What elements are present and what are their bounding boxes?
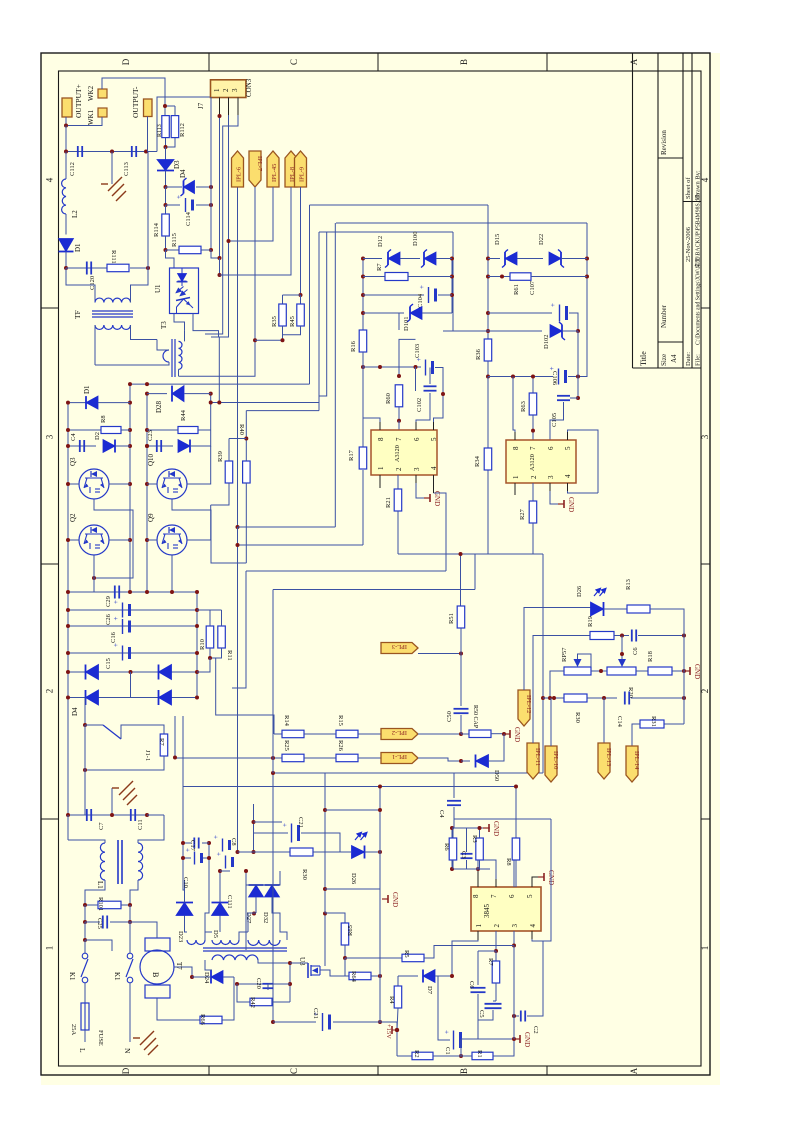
resistor R40 — [243, 461, 251, 483]
svg-text:5: 5 — [430, 437, 438, 441]
svg-text:8: 8 — [512, 446, 520, 450]
svg-text:+: + — [112, 600, 120, 604]
svg-text:T3: T3 — [160, 321, 168, 329]
resistor R19 — [590, 632, 614, 640]
wire U1 pins top — [166, 250, 175, 268]
svg-text:D2: D2 — [94, 432, 101, 440]
svg-text:R14: R14 — [283, 715, 290, 727]
flag IPL-2 — [381, 729, 418, 740]
bus B corner — [336, 222, 587, 224]
svg-text:L2: L2 — [71, 210, 79, 218]
svg-text:R10: R10 — [199, 639, 206, 650]
svg-text:R44: R44 — [180, 409, 187, 421]
wire U1 bottom left — [174, 314, 185, 331]
svg-text:D: D — [121, 1067, 131, 1074]
svg-text:D1: D1 — [83, 385, 91, 394]
bridge diode D3a — [86, 665, 99, 680]
svg-text:C29: C29 — [105, 596, 112, 607]
resistor R11 — [218, 626, 226, 648]
wire D27 bottom — [255, 897, 257, 913]
wire aux row — [245, 871, 247, 950]
svg-text:R8: R8 — [100, 415, 107, 423]
bus C corner — [319, 231, 453, 233]
svg-text:R21: R21 — [385, 497, 392, 508]
resistor R65 — [325, 913, 345, 923]
sheet border — [41, 53, 710, 1075]
wire TF right top — [131, 268, 149, 303]
svg-text:C20: C20 — [255, 978, 262, 989]
pin5 stub — [433, 422, 435, 430]
svg-text:5: 5 — [564, 446, 572, 450]
capacitor C104 polarized — [428, 287, 430, 303]
optocoupler U1 — [170, 268, 199, 314]
svg-text:C50: C50 — [446, 711, 453, 722]
row D101 — [363, 312, 404, 314]
flag IPL-7 — [249, 151, 261, 187]
svg-text:B: B — [459, 1068, 469, 1074]
row 724 R31 — [664, 723, 684, 725]
wire R10/R11 bottoms — [210, 648, 222, 658]
transformer TF core — [92, 310, 133, 312]
svg-text:+: + — [212, 835, 220, 839]
bus D rail — [319, 232, 327, 396]
pin3 gnd IC2 — [549, 483, 551, 491]
resistor R44 cell2 — [147, 429, 178, 431]
flag IPL-9 — [295, 151, 307, 187]
svg-text:J7: J7 — [197, 102, 205, 109]
svg-text:Number: Number — [660, 304, 668, 328]
svg-text:C11: C11 — [137, 819, 144, 830]
bridge diode row bottom — [68, 697, 197, 699]
svg-text:A: A — [629, 58, 639, 65]
svg-text:D1: D1 — [74, 243, 82, 252]
row C16 — [68, 625, 197, 627]
diode D32 — [265, 885, 280, 897]
pin5 stub IC2 — [567, 432, 569, 440]
svg-text:IPL-10: IPL-10 — [552, 751, 559, 769]
transformer T3 secondary — [179, 341, 183, 369]
CON3 pin1 wire — [219, 98, 221, 117]
pin6 stub — [415, 422, 417, 430]
resistor R115 — [166, 249, 180, 251]
svg-text:IPL-3: IPL-3 — [392, 643, 407, 650]
capacitor C23 cell2 — [156, 440, 158, 452]
row D12 D100 — [363, 258, 382, 260]
svg-text:C14: C14 — [616, 716, 623, 728]
wire D7 node down C1 — [438, 976, 450, 1040]
svg-text:R16: R16 — [350, 340, 357, 352]
diode D15 zener — [505, 252, 517, 265]
svg-text:+: + — [549, 303, 557, 307]
svg-text:Revision: Revision — [660, 130, 668, 155]
node IPL-9 R45 top — [299, 293, 303, 297]
wire C14 tap down IPL-13 — [603, 698, 605, 743]
svg-text:R66: R66 — [199, 1014, 206, 1026]
wire OUTPUT+ rail down — [65, 126, 67, 152]
svg-text:R30: R30 — [301, 869, 308, 880]
svg-text:GND: GND — [433, 491, 441, 506]
svg-text:R50 CAP: R50 CAP — [472, 705, 478, 729]
resistor R25 — [282, 754, 304, 762]
wire IPL-6 rail upper — [237, 187, 239, 527]
svg-text:+: + — [548, 367, 556, 371]
svg-text:R8: R8 — [505, 858, 512, 866]
row 331 — [443, 330, 488, 332]
wire R39 bottom to Q9 gate — [211, 483, 229, 505]
rail 488 lower — [487, 469, 489, 554]
svg-text:GND: GND — [567, 497, 575, 512]
svg-text:C23: C23 — [147, 430, 154, 441]
row 527 bus — [238, 526, 336, 528]
svg-text:U3: U3 — [298, 957, 306, 966]
flag IPL-1 — [381, 753, 418, 764]
svg-text:IPL-13: IPL-13 — [605, 748, 612, 766]
svg-text:3: 3 — [547, 475, 555, 479]
IC A3120 #1 — [371, 430, 437, 475]
svg-text:R1: R1 — [476, 1050, 483, 1058]
wire RP57 left — [550, 671, 564, 698]
svg-text:R3: R3 — [471, 835, 478, 843]
svg-text:25-Nov-2006: 25-Nov-2006 — [685, 226, 692, 262]
svg-text:7: 7 — [529, 446, 537, 450]
capacitor C114 — [185, 198, 187, 212]
wire R113/R112 bottoms — [165, 138, 167, 147]
node IPL-7 R35 row — [253, 338, 257, 342]
bus A corner — [310, 204, 489, 206]
wire R60 bottom to pin7 — [398, 421, 400, 430]
svg-text:C6: C6 — [632, 647, 639, 655]
earth ground bottom — [133, 1031, 158, 1055]
svg-text:R112: R112 — [179, 123, 186, 137]
row C107 — [488, 312, 552, 314]
row R61 — [488, 276, 510, 278]
wire K1 row — [84, 922, 86, 940]
wire Q2 emitter down — [93, 555, 95, 592]
rail 488 top — [487, 205, 489, 339]
capacitor C103 polarized — [425, 360, 427, 376]
svg-text:3: 3 — [45, 434, 55, 439]
resistor R17 — [359, 447, 367, 469]
row 545 bus — [238, 544, 364, 546]
capacitor C5 — [485, 1003, 502, 1005]
row R7x — [363, 276, 385, 278]
svg-text:C1: C1 — [444, 1047, 451, 1055]
rail 363 mid — [362, 470, 364, 545]
wire T3 sec bottom to IPL7 row — [179, 340, 256, 376]
svg-text:D4: D4 — [179, 169, 187, 178]
svg-text:+: + — [112, 617, 120, 621]
flag IPL-8 — [285, 151, 297, 187]
svg-text:R42: R42 — [249, 997, 256, 1008]
resistor R50 — [461, 733, 469, 735]
capacitor C6 — [631, 630, 633, 642]
svg-text:R6: R6 — [443, 843, 450, 851]
resistor R4 — [397, 976, 399, 986]
svg-text:C106: C106 — [551, 371, 558, 386]
terminal WK2 — [98, 89, 107, 98]
capacitor C4 cell1 — [79, 440, 81, 452]
diode D28 — [147, 393, 167, 395]
rail 363 to R17 — [362, 367, 364, 447]
svg-text:D7: D7 — [426, 986, 433, 995]
capacitor C2 — [514, 1015, 519, 1017]
svg-text:R111: R111 — [110, 250, 117, 264]
svg-text:B: B — [151, 972, 160, 977]
resistor R8 cell1 — [68, 429, 101, 431]
capacitor C6b — [477, 951, 479, 985]
svg-text:R26: R26 — [337, 740, 344, 752]
resistor R13 — [627, 605, 650, 613]
svg-text:R18: R18 — [647, 651, 654, 662]
wire IPL-10 riser — [550, 698, 552, 746]
earth ground at cap row — [111, 152, 113, 185]
inductor L1 left winding — [67, 815, 69, 840]
bridge diode D5a — [159, 665, 172, 680]
svg-text:R30: R30 — [574, 712, 581, 723]
svg-text:A4: A4 — [670, 354, 678, 363]
svg-text:3: 3 — [413, 467, 421, 471]
power +15V — [333, 1022, 397, 1030]
wire U1 bottom right to T3 — [193, 314, 219, 338]
rail right HV — [196, 592, 198, 698]
capacitor C4b — [447, 800, 461, 802]
svg-text:D24: D24 — [203, 972, 210, 984]
wire D27/D32 tops — [246, 871, 256, 885]
svg-text:C: C — [289, 1068, 299, 1074]
wire IPL-8 tail — [220, 187, 292, 275]
row 889 — [325, 888, 380, 890]
svg-text:OUTPUT+: OUTPUT+ — [74, 84, 83, 118]
node D1-C120 row — [64, 266, 68, 270]
rail 254 low — [253, 804, 255, 852]
transformer T3 core — [171, 339, 173, 377]
inductor L2 — [65, 152, 67, 180]
row R6 C3 R3 top — [452, 868, 490, 870]
rail 290 — [289, 963, 291, 1002]
row 376 C106 — [488, 376, 553, 378]
bus A row left — [130, 383, 310, 385]
svg-text:GND: GND — [513, 727, 521, 742]
svg-text:R7: R7 — [376, 263, 383, 271]
inductor L1 core — [117, 840, 119, 884]
row 554 — [398, 553, 543, 555]
wire pin1 tap from R113 node — [164, 106, 166, 116]
svg-text:Q10: Q10 — [147, 453, 155, 466]
rail mid cell2 — [210, 394, 212, 430]
svg-text:C8: C8 — [230, 838, 237, 846]
wire OUTPUT- down to cap row — [147, 117, 149, 152]
svg-text:R13: R13 — [625, 579, 632, 590]
rail 273 upper — [272, 590, 274, 759]
capacitor C113 — [131, 146, 133, 157]
svg-text:IPL-1: IPL-1 — [392, 753, 407, 760]
node CON3 pin1 — [218, 114, 222, 118]
wire R40 bottom rail — [245, 483, 247, 563]
wire motor top — [130, 922, 157, 938]
rail D4-C114 right — [210, 187, 212, 250]
wire R39 top — [229, 438, 246, 440]
svg-text:2: 2 — [395, 467, 403, 471]
svg-text:+: + — [112, 643, 120, 647]
row 698 R30 C14 — [543, 697, 564, 699]
row 773 bus — [273, 772, 543, 774]
flag IPL-13 — [598, 743, 610, 779]
capacitor C29 — [114, 586, 116, 599]
CON3 pin2 wire — [228, 98, 230, 116]
capacitor C50 — [460, 654, 462, 707]
svg-text:R45: R45 — [289, 316, 296, 327]
wire C6 to R20 arrow — [621, 636, 623, 660]
potentiometer RP57 — [564, 667, 591, 675]
row 828 — [452, 827, 490, 829]
svg-text:GND: GND — [523, 1032, 531, 1047]
rail aux right — [208, 843, 210, 880]
svg-text:5: 5 — [526, 894, 534, 898]
wire R35/R45 bottoms row — [282, 326, 284, 340]
resistor R6 — [452, 828, 454, 838]
svg-text:WK2: WK2 — [87, 85, 95, 101]
svg-text:CON3: CON3 — [245, 78, 253, 97]
svg-text:C7: C7 — [98, 822, 105, 830]
svg-text:4: 4 — [45, 177, 55, 182]
svg-text:4: 4 — [430, 466, 438, 470]
capacitor C25 — [84, 905, 86, 922]
wire py97 OUTPUT- net to CON3 — [157, 97, 211, 152]
resistor R16 — [359, 330, 367, 352]
svg-text:R101: R101 — [97, 897, 104, 911]
svg-text:6: 6 — [413, 437, 421, 441]
svg-text:C25: C25 — [96, 918, 103, 929]
terminal OUTPUT- — [144, 99, 153, 117]
svg-text:R60: R60 — [385, 393, 392, 404]
svg-text:L: L — [78, 1048, 87, 1053]
svg-text:R51: R51 — [448, 613, 455, 624]
svg-text:R63: R63 — [520, 401, 527, 412]
svg-text:J1-1: J1-1 — [144, 750, 151, 761]
wire to D3 — [165, 147, 167, 160]
svg-text:1: 1 — [475, 924, 483, 928]
svg-text:C111: C111 — [226, 895, 233, 909]
svg-text:+: + — [443, 1030, 451, 1034]
wire OUTPUT+ to node — [65, 117, 67, 126]
wire aux rail link — [205, 880, 209, 932]
inductor L1 right winding — [138, 843, 143, 880]
svg-text:K1: K1 — [113, 972, 121, 981]
svg-text:C:\Documents and Settings\XW\桌: C:\Documents and Settings\XW\桌面\BACKUP\P… — [694, 193, 702, 345]
row 571 bus — [246, 570, 446, 572]
wire OUT- rail down to R111 node — [147, 152, 149, 269]
svg-text:D26: D26 — [576, 585, 583, 597]
title block — [632, 53, 634, 368]
rail 380 upper — [379, 787, 381, 890]
resistor R101 — [98, 901, 121, 909]
svg-text:6: 6 — [508, 894, 516, 898]
svg-text:R7: R7 — [487, 958, 494, 966]
row 819 to left — [454, 818, 551, 820]
pin8 stub — [379, 422, 381, 430]
resistor R111 — [107, 264, 129, 272]
node R115 row — [164, 248, 168, 252]
svg-text:C114: C114 — [185, 211, 192, 226]
svg-text:A3120: A3120 — [529, 454, 536, 471]
capacitor C20 — [237, 983, 268, 985]
svg-text:8: 8 — [472, 894, 480, 898]
wire IPL-3 tip — [418, 653, 461, 655]
svg-text:3: 3 — [700, 434, 710, 439]
flag IPL-10 — [545, 746, 557, 782]
capacitor C1 polarized — [453, 1031, 455, 1050]
pin1 wire — [477, 931, 479, 940]
svg-text:Date:: Date: — [685, 352, 692, 366]
capacitor C24 polarized — [291, 824, 293, 843]
resistor R114 — [165, 205, 167, 214]
svg-text:25A: 25A — [70, 1024, 77, 1036]
capacitor C7 — [86, 809, 88, 821]
resistor R42 — [237, 984, 250, 1002]
flag IPL-3 — [381, 643, 418, 654]
svg-text:R61: R61 — [513, 284, 520, 295]
svg-text:+: + — [215, 852, 223, 856]
svg-text:C6: C6 — [468, 981, 475, 989]
bridge diode D6a — [159, 690, 172, 705]
rail 219 to bus row — [218, 337, 220, 403]
svg-text:B: B — [459, 59, 469, 65]
relay contact K1 right — [127, 953, 133, 959]
wire C114 row — [165, 187, 167, 205]
wire IPL-7 tail — [254, 187, 256, 340]
wire row758 left rail — [174, 716, 176, 758]
node D4 row right — [209, 185, 213, 189]
svg-text:C15: C15 — [105, 658, 112, 669]
wire motor right — [174, 967, 192, 977]
svg-text:D23: D23 — [177, 931, 184, 942]
resistor R51 — [460, 554, 462, 606]
svg-text:D100: D100 — [412, 232, 419, 246]
flag IPL-11 — [527, 743, 539, 779]
svg-text:Q2: Q2 — [69, 513, 77, 522]
wire L2 to D1 — [65, 214, 67, 235]
IC A3120 #2 — [506, 440, 576, 483]
svg-text:1: 1 — [377, 466, 385, 470]
resistor R34 — [487, 377, 489, 449]
svg-text:+: + — [184, 848, 192, 852]
svg-text:C5: C5 — [478, 1010, 485, 1018]
diode D4 zener — [166, 186, 183, 188]
resistor R112 — [171, 116, 179, 138]
wire WK2 riser to R113 net — [102, 78, 165, 106]
rail 543 upper — [542, 554, 544, 698]
resistor R1 — [472, 1052, 493, 1060]
svg-text:R2: R2 — [413, 1050, 420, 1058]
pin5 gnd — [532, 877, 538, 887]
capacitor C111 polarized — [220, 870, 230, 872]
svg-text:RP57: RP57 — [561, 647, 568, 662]
transformer TF primary — [66, 268, 95, 302]
svg-text:R31: R31 — [650, 716, 657, 727]
svg-text:D3: D3 — [173, 160, 181, 169]
IC 3845 — [471, 887, 541, 931]
diode D7 — [398, 975, 418, 977]
svg-text:8: 8 — [377, 437, 385, 441]
row R25 R26 — [175, 757, 282, 759]
pin2 R27 — [532, 483, 534, 501]
resistor R36 — [484, 339, 492, 361]
svg-text:C112: C112 — [69, 162, 76, 176]
wire C20/R42 right rail — [268, 983, 290, 985]
transistor Q10 — [157, 469, 187, 499]
svg-text:Q3: Q3 — [69, 457, 77, 466]
svg-text:Size: Size — [660, 354, 668, 366]
